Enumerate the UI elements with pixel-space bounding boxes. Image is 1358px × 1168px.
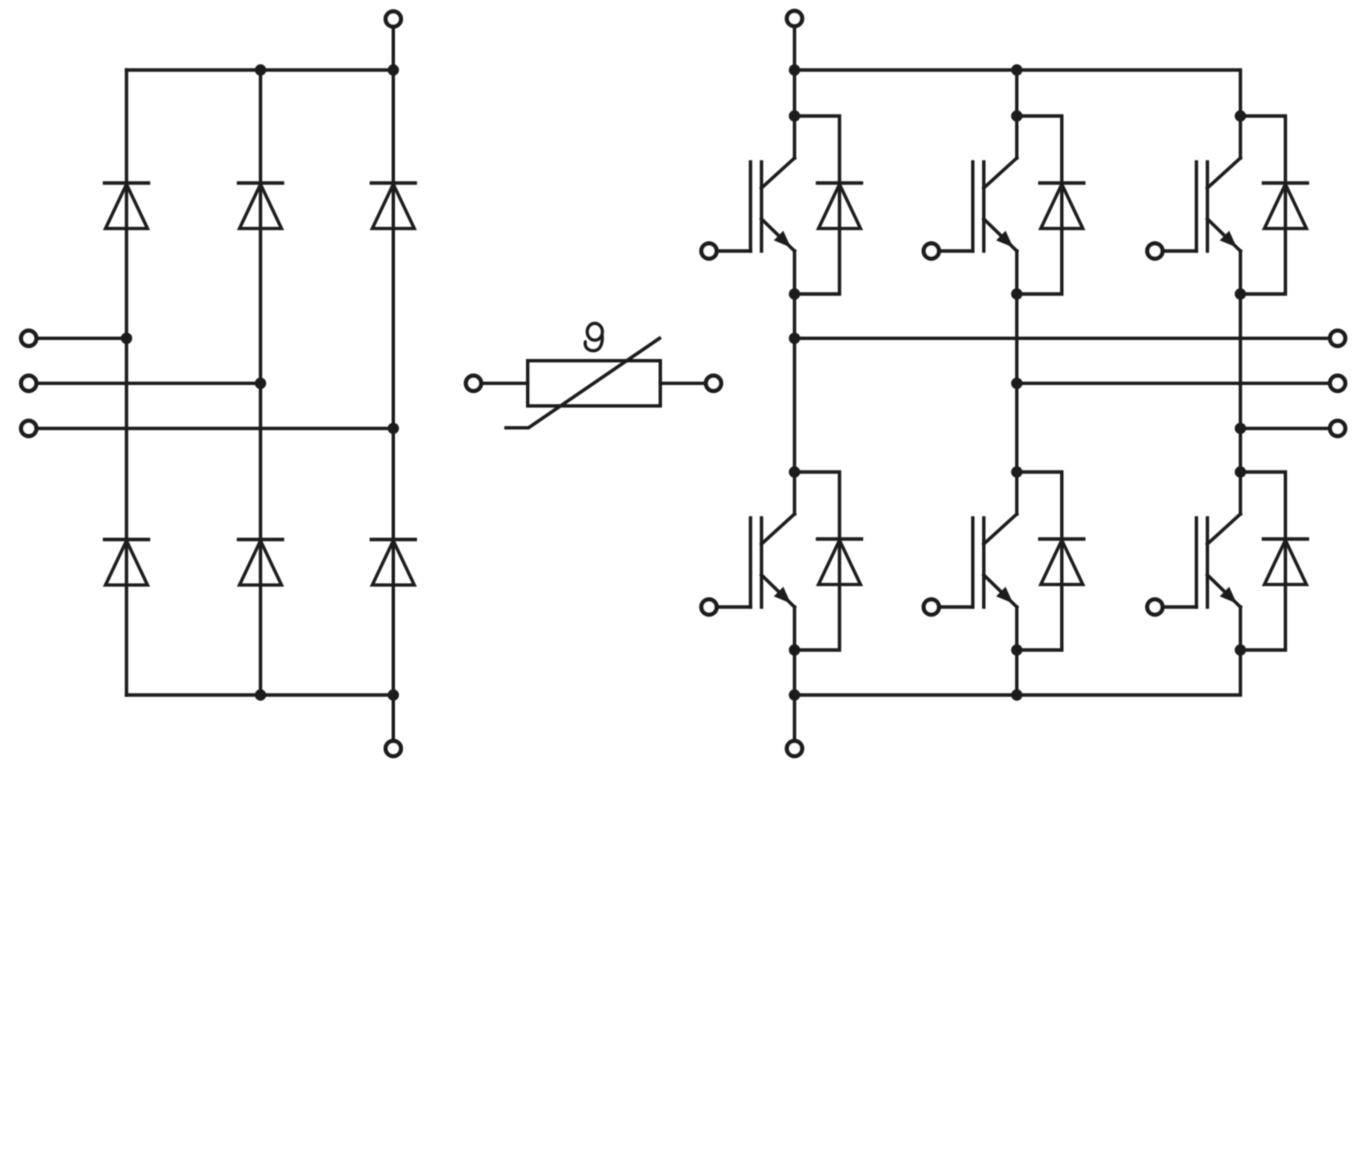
wire Q4 collector-diode bracket — [1017, 472, 1062, 650]
freewheel diode D11 — [1263, 183, 1307, 229]
node inverter DC- bus / leg1 — [789, 689, 800, 700]
node Q4 collector junction — [1011, 466, 1022, 477]
wire phase output V — [1017, 382, 1330, 385]
terminal inverter DC- — [787, 741, 802, 756]
label thermistor temperature symbol — [585, 323, 602, 350]
node Q2 collector junction — [789, 466, 800, 477]
freewheel diode D12 — [1263, 539, 1307, 585]
node rectifier DC- bus / leg2 — [255, 689, 266, 700]
node phase W / leg3 — [1235, 423, 1246, 434]
wire leg1 bottom with DC- terminal stem — [793, 650, 796, 740]
terminal thermistor right — [706, 376, 721, 391]
terminal gate G2 — [701, 599, 716, 614]
wire Q3 collector-diode bracket — [1017, 116, 1062, 294]
node rectifier DC- bus / leg3 — [388, 689, 399, 700]
IGBT Q5 — [1196, 116, 1240, 294]
node phase U / leg1 — [789, 333, 800, 344]
terminal phase U — [1330, 331, 1345, 346]
freewheel diode D10 — [1040, 539, 1084, 585]
wire inverter DC+ terminal stem / leg1 top — [793, 29, 796, 116]
node L1 / leg1 — [121, 333, 132, 344]
terminal gate G6 — [1147, 599, 1162, 614]
diode D1 (upper, leg 1) — [105, 183, 149, 229]
diode D6 (lower, leg 2) — [239, 540, 283, 586]
wire gate lead Q4 — [931, 605, 973, 608]
node Q3 collector junction — [1011, 110, 1022, 121]
wire leg3 top — [1239, 114, 1242, 117]
wire Q1 collector-diode bracket — [795, 116, 840, 294]
terminal rectifier DC- — [386, 741, 401, 756]
thermistor RT slash — [506, 338, 660, 428]
IGBT Q1 — [751, 116, 795, 294]
wire rectifier DC- bus — [127, 693, 394, 696]
terminal phase W — [1330, 421, 1345, 436]
node L2 / leg2 — [255, 378, 266, 389]
node inverter DC+ bus / leg2 — [1011, 64, 1022, 75]
node phase V / leg2 — [1011, 378, 1022, 389]
node Q1 collector junction — [789, 110, 800, 121]
wire inverter DC+ bus — [795, 70, 1241, 116]
node Q6 emitter junction — [1235, 644, 1246, 655]
wire rectifier leg 2 — [259, 70, 262, 695]
terminal thermistor left — [466, 376, 481, 391]
wire gate lead Q2 — [709, 605, 751, 608]
node Q5 emitter junction — [1235, 288, 1246, 299]
node inverter DC+ bus / leg1 — [789, 64, 800, 75]
wire rectifier leg 1 — [125, 70, 128, 695]
IGBT Q4 — [973, 472, 1017, 650]
wire gate lead Q3 — [931, 249, 973, 252]
diode D3 (upper, leg 2) — [239, 183, 283, 229]
diode D4 (lower, leg 1) — [105, 540, 149, 586]
node rectifier DC+ bus / leg3 — [388, 64, 399, 75]
node inverter DC- bus / leg2 — [1011, 689, 1022, 700]
wire leg2 top — [1015, 70, 1018, 116]
terminal rectifier DC+ — [386, 11, 401, 26]
wire AC input L2 — [36, 382, 261, 385]
node rectifier DC+ bus / leg2 — [255, 64, 266, 75]
wire leg3 mid — [1239, 294, 1242, 472]
terminal phase V — [1330, 376, 1345, 391]
node Q2 emitter junction — [789, 644, 800, 655]
wire Q5 collector-diode bracket — [1240, 116, 1285, 294]
wire thermistor right lead — [660, 382, 706, 385]
freewheel diode D7 — [818, 183, 862, 229]
terminal AC input L3 — [21, 421, 36, 436]
IGBT Q3 — [973, 116, 1017, 294]
wire gate lead Q1 — [709, 249, 751, 252]
wire inverter DC- bus — [795, 650, 1241, 695]
terminal gate G1 — [701, 243, 716, 258]
IGBT Q6 — [1196, 472, 1240, 650]
terminal AC input L2 — [21, 376, 36, 391]
node Q1 emitter junction — [789, 288, 800, 299]
terminal gate G3 — [924, 243, 939, 258]
wire leg2 bottom — [1015, 650, 1018, 695]
wire AC input L3 — [36, 427, 393, 430]
wire Q2 collector-diode bracket — [795, 472, 840, 650]
node L3 / leg3 — [388, 423, 399, 434]
freewheel diode D9 — [1040, 183, 1084, 229]
wire Q6 collector-diode bracket — [1240, 472, 1285, 650]
terminal inverter DC+ — [787, 11, 802, 26]
wire AC input L1 — [36, 337, 127, 340]
thermistor RT body — [528, 361, 661, 406]
wire phase output W — [1240, 427, 1330, 430]
wire leg1 mid — [793, 294, 796, 472]
wire rectifier DC+ bus — [127, 68, 394, 71]
wire gate lead Q6 — [1155, 605, 1197, 608]
diode D2 (lower, leg 3) — [371, 540, 415, 586]
diode D5 (upper, leg 3) — [371, 183, 415, 229]
IGBT Q2 — [751, 472, 795, 650]
wire rectifier leg 3 with DC terminals stem — [392, 29, 395, 740]
wire thermistor left lead — [481, 382, 528, 385]
node Q5 collector junction — [1235, 110, 1246, 121]
wire leg2 mid — [1015, 294, 1018, 472]
node Q3 emitter junction — [1011, 288, 1022, 299]
freewheel diode D8 — [818, 539, 862, 585]
terminal gate G5 — [1147, 243, 1162, 258]
terminal gate G4 — [924, 599, 939, 614]
wire gate lead Q5 — [1155, 249, 1197, 252]
terminal AC input L1 — [21, 331, 36, 346]
wire phase output U — [795, 337, 1331, 340]
node Q6 collector junction — [1235, 466, 1246, 477]
node Q4 emitter junction — [1011, 644, 1022, 655]
